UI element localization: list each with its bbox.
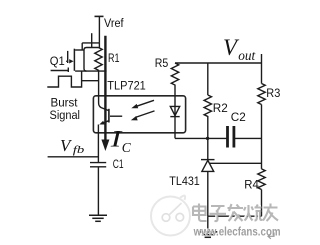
- svg-text:R3: R3: [266, 86, 280, 100]
- wire ground stub: [207, 216, 209, 232]
- svg-text:TLP721: TLP721: [107, 78, 146, 92]
- optocoupler U1 box: [93, 96, 185, 133]
- wire riser stub: [91, 33, 93, 47]
- wire top bus: [175, 62, 262, 64]
- wire TL431 ref lead: [210, 162, 262, 164]
- watermark logo circle: [151, 196, 190, 236]
- node A top wire: [82, 42, 99, 44]
- phototransistor bar: [108, 109, 110, 123]
- resistor R4: [258, 169, 265, 190]
- svg-text:fb: fb: [73, 144, 85, 156]
- LED D1: [174, 96, 176, 117]
- svg-text:C1: C1: [113, 157, 124, 171]
- resistor R5: [171, 63, 178, 96]
- wire Vout rail top: [261, 54, 263, 84]
- svg-text:Signal: Signal: [50, 108, 81, 122]
- resistor R1: [95, 48, 102, 72]
- svg-text:R4: R4: [244, 178, 259, 192]
- wire R4 down: [261, 190, 263, 217]
- wire drain drop: [81, 43, 83, 50]
- wire TL431 anode down: [207, 171, 209, 216]
- svg-text:R1: R1: [108, 51, 120, 65]
- burst signal pulse waveform: [47, 71, 81, 87]
- wire LED cathode down: [174, 117, 176, 139]
- svg-text:C2: C2: [231, 110, 246, 124]
- wire Vref down: [98, 16, 100, 43]
- svg-text:R5: R5: [155, 56, 169, 70]
- svg-text:Q1: Q1: [50, 54, 65, 68]
- wire jog to collector node: [82, 80, 99, 82]
- capacitor C2: [226, 126, 229, 148]
- current arrow I_C: [104, 36, 106, 140]
- wire source bottom line: [75, 70, 107, 72]
- wire R1 top stub: [98, 43, 100, 48]
- svg-text:out: out: [238, 49, 256, 64]
- svg-text:www.elecfans.com: www.elecfans.com: [193, 225, 281, 239]
- svg-text:V: V: [60, 136, 73, 155]
- wire bottom rail: [208, 215, 262, 217]
- wire emitter down: [97, 125, 99, 163]
- wire R1 parallel loop: [84, 48, 99, 72]
- svg-text:TL431: TL431: [169, 174, 200, 188]
- transistor Q1: [66, 60, 68, 62]
- phototransistor emitter: [103, 121, 109, 124]
- watermark text 电子发烧友: [192, 203, 277, 221]
- svg-text:C: C: [122, 140, 132, 155]
- watermark return arrow: [268, 233, 274, 239]
- node junction dot: [206, 137, 209, 140]
- wire R2 branch: [207, 63, 209, 95]
- Vref terminal: [95, 15, 104, 17]
- light arrow 1: [136, 100, 154, 106]
- wire TL431 top: [207, 138, 209, 159]
- wire rail mid: [261, 105, 263, 169]
- wire LED to C2: [175, 137, 227, 139]
- resistor R2: [204, 95, 211, 138]
- wire collector into box: [99, 70, 109, 110]
- ground left: [89, 214, 107, 216]
- ground right: [198, 231, 217, 233]
- light arrow 2: [136, 111, 155, 118]
- svg-text:Vref: Vref: [104, 16, 124, 30]
- node V_fb wire: [48, 156, 99, 158]
- TL431 U2: [201, 159, 215, 161]
- wire C2 to rail: [235, 137, 262, 139]
- svg-text:R2: R2: [213, 101, 228, 115]
- capacitor C1: [90, 162, 106, 164]
- phototransistor base lead: [110, 115, 122, 117]
- wire C1 to ground: [97, 167, 99, 215]
- resistor R3: [258, 84, 265, 105]
- wire Q1 drain lead: [75, 49, 84, 51]
